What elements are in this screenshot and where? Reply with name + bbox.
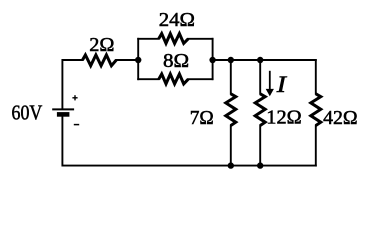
wire bottom: battery negative down and along to bottom-right xyxy=(62,117,315,166)
node dot: box left xyxy=(135,57,141,63)
wire: parallel box right node to top-right corner xyxy=(213,59,316,61)
battery V1 negative plate (short thick) xyxy=(57,112,70,117)
svg-text:7Ω: 7Ω xyxy=(190,107,214,129)
parallel box right edge xyxy=(212,39,214,79)
plus sign of battery xyxy=(72,95,77,100)
svg-text:42Ω: 42Ω xyxy=(323,107,358,129)
node dot: box right xyxy=(209,57,215,63)
resistor R4 7ohm zigzag xyxy=(226,94,236,126)
resistor R1 2ohm zigzag xyxy=(83,55,117,66)
node dot: 7ohm bottom xyxy=(228,162,234,168)
node dot: 12ohm top xyxy=(257,57,263,63)
svg-text:8Ω: 8Ω xyxy=(163,50,189,72)
svg-text:24Ω: 24Ω xyxy=(159,9,195,31)
resistor R6 42ohm zigzag xyxy=(311,94,321,126)
svg-text:I: I xyxy=(276,72,288,97)
wire: 2ohm to parallel box left node xyxy=(116,59,138,61)
parallel box left edge xyxy=(137,39,139,79)
parallel box top edge segments xyxy=(138,38,159,40)
node dot: 12ohm bottom xyxy=(257,162,263,168)
resistor R5 12ohm zigzag xyxy=(255,94,265,126)
resistor R3 8ohm zigzag xyxy=(159,74,189,84)
wire: 7ohm branch vertical xyxy=(230,60,232,94)
svg-text:12Ω: 12Ω xyxy=(266,107,301,129)
minus sign of battery xyxy=(74,124,79,126)
wire: 12ohm branch vertical xyxy=(259,60,261,94)
current arrow I (down) xyxy=(266,71,274,97)
battery V1 60V positive plate (long thin) xyxy=(52,108,74,110)
resistor R2 24ohm zigzag xyxy=(159,34,189,44)
wire top-left: battery positive up to 2ohm resistor xyxy=(62,60,82,109)
wire: 42ohm branch vertical xyxy=(315,60,317,94)
svg-text:60V: 60V xyxy=(12,100,43,124)
parallel box bottom edge segments xyxy=(138,78,159,80)
node dot: 7ohm top xyxy=(228,57,234,63)
svg-text:2Ω: 2Ω xyxy=(89,34,114,56)
